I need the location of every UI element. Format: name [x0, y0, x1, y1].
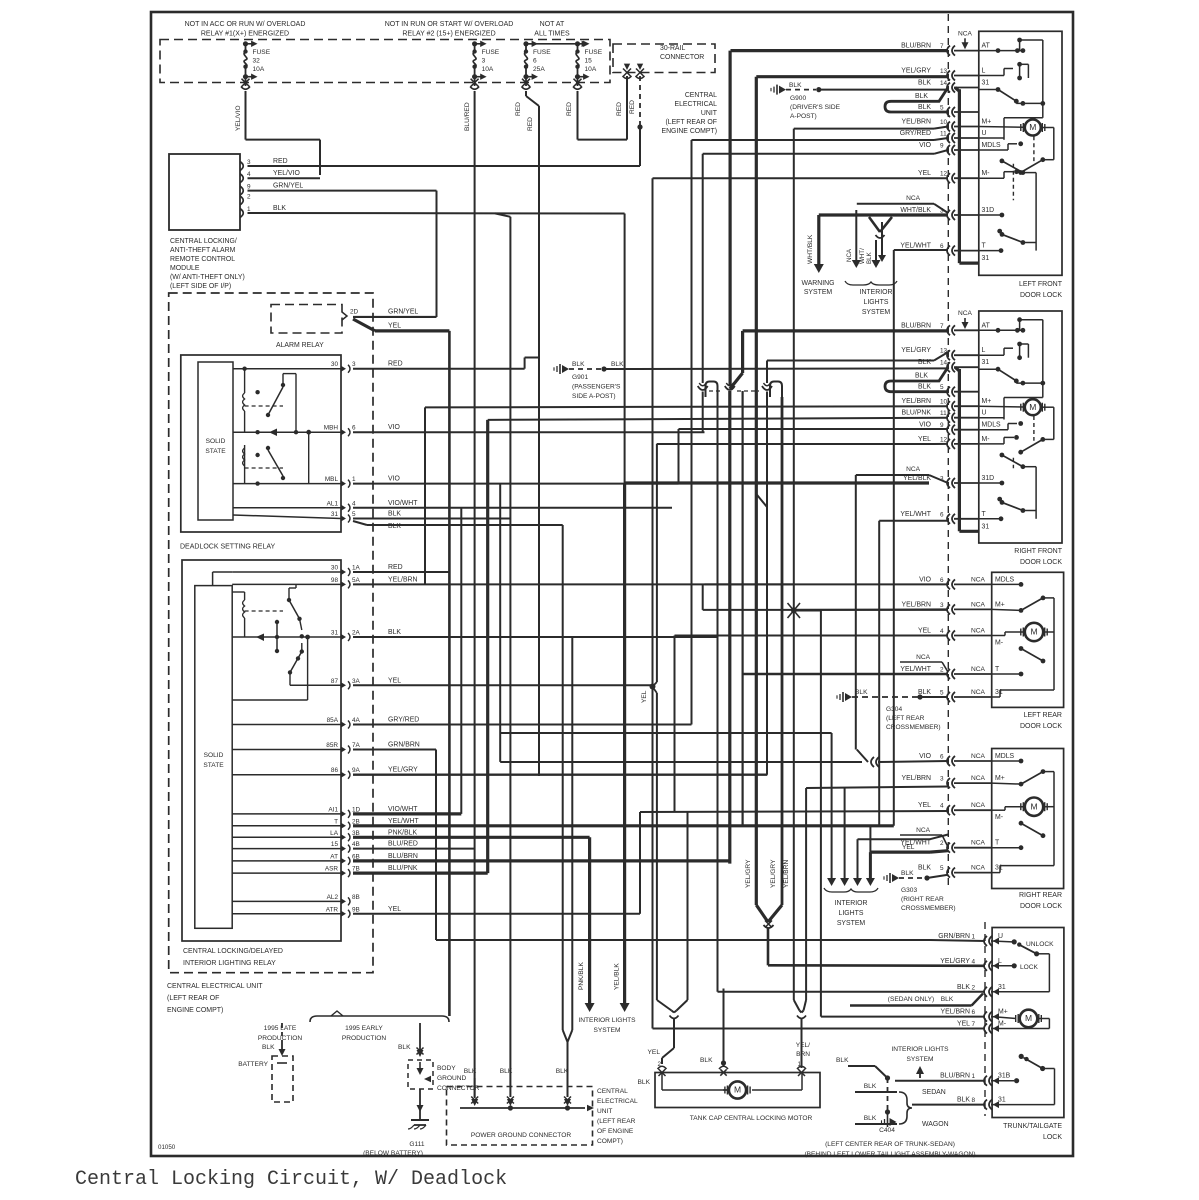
svg-text:YEL/BRN: YEL/BRN: [388, 576, 418, 583]
bus YEL main: [650, 178, 656, 1028]
svg-text:12: 12: [940, 436, 948, 443]
deadlock internals: [233, 367, 341, 519]
svg-text:M-: M-: [995, 640, 1003, 647]
svg-text:GRN/BRN: GRN/BRN: [938, 933, 970, 940]
svg-text:YEL: YEL: [388, 677, 401, 684]
svg-text:4: 4: [971, 958, 975, 965]
wire trunk YEL row: [653, 1028, 986, 1030]
right front door lock label: [1014, 548, 1062, 566]
svg-text:VIO: VIO: [919, 422, 932, 429]
svg-text:PNK/BLK: PNK/BLK: [578, 962, 585, 990]
wire LF T YEL/WHT row: [894, 249, 948, 251]
svg-text:SYSTEM: SYSTEM: [906, 1056, 933, 1063]
svg-text:NCA: NCA: [971, 865, 986, 872]
ground G900: [771, 82, 948, 95]
main relay box: [182, 560, 341, 941]
svg-text:(BELOW BATTERY): (BELOW BATTERY): [363, 1150, 423, 1157]
left rear door lock internals: [992, 582, 1054, 697]
svg-text:YEL: YEL: [918, 802, 931, 809]
harness dash line: [947, 14, 949, 888]
svg-text:ALL TIMES: ALL TIMES: [534, 31, 570, 38]
svg-text:4: 4: [352, 500, 356, 507]
svg-text:NCA: NCA: [906, 195, 921, 202]
header hot at all times: [534, 21, 570, 38]
wire LR p3 row fill: [794, 608, 948, 611]
wire 4B BLU/RED: [353, 848, 475, 850]
svg-text:31: 31: [982, 255, 990, 262]
wire 5A YEL/BRN: [353, 583, 794, 585]
wire RR p4 YEL row: [640, 636, 948, 813]
alarm relay dashed box: [271, 305, 342, 334]
svg-text:(DRIVER'S SIDE: (DRIVER'S SIDE: [790, 104, 841, 111]
svg-text:RED: RED: [388, 361, 403, 368]
wire RF p11 BLU/PNK row: [488, 418, 948, 420]
svg-text:RELAY #1(X+) ENERGIZED: RELAY #1(X+) ENERGIZED: [201, 31, 289, 38]
svg-text:SEDAN: SEDAN: [922, 1089, 946, 1096]
left front door lock label: [1019, 281, 1063, 299]
rot label YEL/GRY 1: [745, 859, 752, 888]
svg-text:M+: M+: [998, 1009, 1008, 1016]
svg-text:VIO/WHT: VIO/WHT: [388, 806, 418, 813]
svg-text:10A: 10A: [482, 66, 494, 73]
svg-text:LIGHTS: LIGHTS: [864, 299, 889, 306]
svg-text:YEL/WHT: YEL/WHT: [900, 511, 931, 518]
main relay label: [183, 948, 283, 967]
G900 text: [790, 95, 841, 120]
svg-text:NOT AT: NOT AT: [540, 21, 565, 28]
svg-text:5: 5: [940, 384, 944, 391]
svg-text:WHT/: WHT/: [859, 248, 866, 264]
LR T NCA stub: [900, 654, 948, 672]
rot label YEL/GRY 2: [770, 859, 777, 888]
interior merge V top: [869, 217, 892, 238]
svg-text:ASR: ASR: [325, 866, 339, 873]
svg-text:G901: G901: [572, 374, 588, 381]
svg-text:31: 31: [331, 630, 339, 637]
svg-text:YEL/WHT: YEL/WHT: [900, 243, 931, 250]
svg-text:85A: 85A: [327, 717, 339, 724]
svg-text:6: 6: [940, 754, 944, 761]
tank cap connectors: [658, 1066, 807, 1076]
svg-text:INTERIOR: INTERIOR: [835, 900, 868, 907]
fuse 3 10A: [470, 41, 500, 90]
svg-text:RED: RED: [629, 100, 636, 114]
svg-text:M: M: [1029, 122, 1036, 132]
module pin4 YEL/VIO wire: [248, 177, 321, 179]
svg-text:YEL/VIO: YEL/VIO: [235, 105, 242, 131]
ground G303: [884, 870, 948, 883]
svg-text:M-: M-: [982, 436, 990, 443]
right rear door lock box: [992, 749, 1064, 889]
diagram number label: [158, 1144, 176, 1151]
wire RF 31D NCA: [856, 466, 948, 750]
deadlock AL1 VIO/WHT wire: [353, 508, 672, 814]
C404 caption: [804, 1141, 975, 1158]
svg-text:BLK: BLK: [388, 629, 401, 636]
svg-text:10: 10: [940, 399, 948, 406]
svg-text:G111: G111: [409, 1141, 424, 1148]
svg-text:BLK: BLK: [700, 1057, 713, 1064]
svg-text:NCA: NCA: [971, 775, 986, 782]
hot-at-all-times bus: [526, 41, 588, 47]
svg-text:BLK: BLK: [273, 205, 286, 212]
svg-text:YEL: YEL: [918, 436, 931, 443]
svg-text:CENTRAL: CENTRAL: [597, 1088, 628, 1095]
svg-text:YEL: YEL: [957, 1021, 970, 1028]
trunk internals: [992, 939, 1054, 1104]
svg-text:YEL/GRY: YEL/GRY: [901, 347, 931, 354]
deadlock inner solid-state box: [198, 362, 233, 520]
svg-text:BATTERY: BATTERY: [238, 1061, 268, 1068]
fuse 32 10A: [241, 41, 271, 90]
svg-text:CENTRAL: CENTRAL: [685, 92, 717, 99]
svg-text:YEL/BRN: YEL/BRN: [941, 1009, 971, 1016]
svg-text:31D: 31D: [982, 475, 995, 482]
svg-text:LA: LA: [330, 830, 339, 837]
svg-text:15: 15: [585, 58, 593, 65]
svg-text:AT: AT: [982, 43, 991, 50]
sedan wagon brace: [899, 1092, 912, 1124]
svg-text:YEL/GRY: YEL/GRY: [745, 859, 752, 888]
battery wire: [262, 1023, 286, 1056]
bus BLU/BRN RF branch: [730, 331, 743, 826]
CEU dashed box: [169, 293, 373, 973]
svg-text:WAGON: WAGON: [922, 1121, 949, 1128]
left front door lock BLK loop wire: [885, 88, 948, 113]
svg-text:YEL: YEL: [648, 1049, 661, 1056]
svg-text:NCA: NCA: [971, 576, 986, 583]
brace 1995: [310, 1011, 449, 1022]
svg-text:2D: 2D: [350, 309, 359, 316]
left front door lock internals: [979, 38, 1054, 253]
alarm relay YEL wire: [353, 319, 449, 1016]
svg-text:PRODUCTION: PRODUCTION: [342, 1035, 387, 1042]
deadlock RED wire: [353, 368, 525, 370]
svg-text:G900: G900: [790, 95, 806, 102]
svg-text:PRODUCTION: PRODUCTION: [258, 1035, 303, 1042]
svg-text:14: 14: [940, 80, 948, 87]
trunk lock label: [1003, 1123, 1062, 1141]
svg-text:M-: M-: [995, 814, 1003, 821]
svg-text:L: L: [982, 347, 986, 354]
svg-text:NCA: NCA: [971, 840, 986, 847]
deadlock BLK second label: [388, 523, 401, 530]
trunk dash line: [984, 922, 986, 1116]
svg-text:31: 31: [998, 1097, 1006, 1104]
svg-text:MDLS: MDLS: [982, 422, 1002, 429]
svg-text:9: 9: [247, 184, 251, 191]
svg-text:13: 13: [940, 68, 948, 75]
warning arrow: [807, 234, 824, 273]
C404 wires: [836, 1057, 890, 1115]
YEL/BRN to LR p3: [703, 609, 948, 611]
svg-text:BLK: BLK: [572, 361, 585, 368]
svg-text:10: 10: [940, 119, 948, 126]
tank cap motor: [725, 1081, 750, 1098]
svg-text:SYSTEM: SYSTEM: [862, 309, 891, 316]
svg-text:VIO/WHT: VIO/WHT: [388, 500, 418, 507]
fuse 6 25A: [522, 41, 552, 90]
wire 9A YEL/GRY: [353, 397, 782, 905]
svg-text:YEL: YEL: [902, 844, 915, 851]
svg-text:LOCK: LOCK: [1043, 1134, 1062, 1141]
svg-text:UNIT: UNIT: [701, 110, 718, 117]
wire 1A RED: [353, 571, 449, 573]
svg-text:RED: RED: [388, 564, 403, 571]
body ground text: [437, 1065, 480, 1092]
svg-text:BLK: BLK: [918, 384, 931, 391]
svg-text:31: 31: [982, 523, 990, 530]
svg-text:4: 4: [940, 628, 944, 635]
wire LF p12 YEL row: [653, 177, 949, 179]
svg-text:NCA: NCA: [916, 654, 931, 661]
svg-text:MDLS: MDLS: [995, 576, 1015, 583]
svg-text:4B: 4B: [352, 841, 360, 848]
right front door lock pins: [900, 322, 1001, 530]
G901 text: [572, 374, 621, 400]
wire 3A YEL: [353, 684, 653, 686]
svg-text:GRN/BRN: GRN/BRN: [388, 742, 420, 749]
svg-text:RED: RED: [566, 102, 573, 116]
power ground box: [447, 1087, 593, 1146]
bus YEL branch RF: [653, 444, 657, 686]
interior lights text top: [860, 289, 893, 316]
svg-text:T: T: [334, 818, 338, 825]
YEL/BRN branch tank: [805, 788, 807, 1000]
svg-text:5A: 5A: [352, 577, 361, 584]
YEL/BRN to RR p3: [794, 611, 948, 1017]
tank YEL V: [657, 1000, 688, 1064]
inline connectors: [698, 382, 782, 398]
svg-text:NCA: NCA: [916, 827, 931, 834]
svg-text:INTERIOR: INTERIOR: [860, 289, 893, 296]
svg-text:2: 2: [940, 840, 944, 847]
svg-text:BLK: BLK: [918, 80, 931, 87]
interior lights text bottom-mid: [578, 1017, 636, 1034]
svg-text:SOLID: SOLID: [206, 438, 226, 445]
svg-text:CONNECTOR: CONNECTOR: [660, 54, 704, 61]
interior brace mid: [824, 888, 878, 892]
svg-text:GRN/YEL: GRN/YEL: [388, 309, 418, 316]
right rear door lock label: [1019, 892, 1062, 910]
svg-text:BLK: BLK: [957, 984, 970, 991]
svg-text:L: L: [982, 68, 986, 75]
svg-text:NOT IN ACC OR RUN W/ OVERLOAD: NOT IN ACC OR RUN W/ OVERLOAD: [185, 21, 306, 28]
wire 7A GRN/BRN: [353, 750, 985, 942]
svg-text:32: 32: [253, 58, 261, 65]
svg-text:ENGINE COMPT): ENGINE COMPT): [167, 1007, 223, 1014]
svg-text:6: 6: [971, 1009, 975, 1016]
svg-text:YEL/GRY: YEL/GRY: [770, 859, 777, 888]
svg-text:CENTRAL ELECTRICAL UNIT: CENTRAL ELECTRICAL UNIT: [167, 983, 263, 990]
module pin1 BLK wire: [248, 213, 625, 1097]
svg-text:9A: 9A: [352, 767, 361, 774]
svg-text:3: 3: [247, 159, 251, 166]
body ground wire: [398, 1023, 424, 1057]
svg-text:ALARM RELAY: ALARM RELAY: [276, 342, 324, 349]
svg-text:BLU/PNK: BLU/PNK: [388, 865, 418, 872]
svg-text:BLK: BLK: [901, 870, 914, 877]
deadlock label: [180, 544, 276, 551]
svg-text:30-RAIL: 30-RAIL: [660, 45, 685, 52]
wire RED from fuse 6: [515, 91, 539, 776]
svg-text:ANTI-THEFT ALARM: ANTI-THEFT ALARM: [170, 247, 236, 254]
svg-text:U: U: [982, 410, 987, 417]
svg-text:(BEHIND LEFT LOWER TAILLIGHT A: (BEHIND LEFT LOWER TAILLIGHT ASSEMBLY-WA…: [804, 1151, 975, 1158]
svg-text:7: 7: [971, 1021, 975, 1028]
svg-text:GRY/RED: GRY/RED: [900, 130, 931, 137]
svg-text:G304: G304: [886, 706, 902, 713]
right front door lock BLK 31 drop wire: [955, 367, 979, 531]
bus VIO LR row: [705, 583, 949, 585]
svg-text:BLK: BLK: [556, 1068, 569, 1075]
deadlock pins: [324, 361, 418, 523]
main relay pins: [325, 564, 420, 918]
svg-text:VIO: VIO: [919, 753, 932, 760]
svg-text:VIO: VIO: [919, 576, 932, 583]
deadlock MBL VIO wire: [353, 483, 679, 485]
svg-text:TANK CAP CENTRAL LOCKING MOTOR: TANK CAP CENTRAL LOCKING MOTOR: [690, 1115, 813, 1122]
tank cap box: [655, 1073, 820, 1108]
svg-text:8B: 8B: [352, 894, 360, 901]
30-rail pin arcs: [623, 64, 645, 79]
svg-text:BLK: BLK: [611, 361, 624, 368]
right front door lock internals: [979, 317, 1054, 521]
svg-text:3: 3: [940, 602, 944, 609]
1995 early text: [342, 1025, 387, 1042]
svg-text:GROUND: GROUND: [437, 1075, 467, 1082]
svg-text:COMPT): COMPT): [597, 1138, 623, 1145]
module text: [170, 238, 245, 290]
svg-text:U: U: [982, 130, 987, 137]
svg-text:YEL/WHT: YEL/WHT: [388, 818, 419, 825]
svg-text:5: 5: [940, 865, 944, 872]
svg-text:AT: AT: [330, 853, 338, 860]
svg-text:(LEFT REAR: (LEFT REAR: [597, 1118, 636, 1125]
svg-text:YEL/GRY: YEL/GRY: [901, 68, 931, 75]
svg-text:NOT IN RUN OR START W/ OVERLOA: NOT IN RUN OR START W/ OVERLOAD: [385, 21, 514, 28]
svg-text:4A: 4A: [352, 717, 361, 724]
svg-text:BLK: BLK: [638, 1079, 651, 1086]
svg-text:7: 7: [940, 323, 944, 330]
svg-text:YEL/BRN: YEL/BRN: [783, 860, 790, 888]
deadlock 31 BLK wire: [353, 518, 510, 520]
bus YEL/WHT LFT: [893, 250, 895, 826]
right rear door lock internals: [992, 759, 1054, 873]
svg-text:NCA: NCA: [971, 802, 986, 809]
rot label YEL/BRN: [783, 860, 790, 888]
svg-text:BLK: BLK: [866, 251, 873, 264]
svg-text:NCA: NCA: [971, 666, 986, 673]
svg-text:BLK: BLK: [855, 689, 868, 696]
svg-text:(LEFT REAR OF: (LEFT REAR OF: [665, 119, 717, 126]
svg-text:1A: 1A: [352, 565, 361, 572]
svg-text:1995 EARLY: 1995 EARLY: [345, 1025, 383, 1032]
svg-text:2: 2: [971, 984, 975, 991]
svg-text:STATE: STATE: [203, 762, 224, 769]
LR T YEL/WHT wire: [743, 673, 948, 676]
wire BLU/RED from fuse 3: [464, 91, 475, 1097]
wire LF p7 BLU/BRN row: [731, 49, 949, 52]
CEU bottom right text: [597, 1088, 638, 1145]
bus VIO LR link: [702, 584, 704, 610]
svg-text:LEFT FRONT: LEFT FRONT: [1019, 281, 1063, 288]
svg-text:MODULE: MODULE: [170, 265, 200, 272]
svg-text:(PASSENGER'S: (PASSENGER'S: [572, 384, 621, 391]
svg-text:BLK: BLK: [789, 82, 802, 89]
wire LF p9 VIO row: [703, 150, 948, 154]
warning system text: [801, 280, 834, 296]
main relay inner solid-state box: [195, 586, 232, 929]
svg-text:M: M: [734, 1085, 741, 1095]
wire LR p4 YEL row: [675, 635, 949, 637]
svg-text:SYSTEM: SYSTEM: [804, 289, 833, 296]
svg-text:31: 31: [982, 359, 990, 366]
fuse 15 10A: [573, 41, 603, 90]
G304 text: [886, 706, 941, 731]
svg-text:31D: 31D: [982, 207, 995, 214]
svg-text:31: 31: [982, 80, 990, 87]
ground G304: [837, 689, 948, 702]
svg-text:BLK: BLK: [918, 865, 931, 872]
svg-text:31: 31: [998, 984, 1006, 991]
svg-text:BLU/BRN: BLU/BRN: [901, 322, 931, 329]
svg-text:11: 11: [940, 410, 947, 417]
svg-text:CENTRAL LOCKING/: CENTRAL LOCKING/: [170, 238, 237, 245]
ground G901: [554, 361, 948, 374]
svg-text:12: 12: [940, 171, 948, 178]
svg-text:13: 13: [940, 348, 948, 355]
svg-text:7A: 7A: [352, 742, 361, 749]
deadlock relay box: [181, 355, 341, 532]
svg-text:LOCK: LOCK: [1020, 964, 1039, 971]
svg-text:BLK: BLK: [500, 1068, 513, 1075]
svg-text:NCA: NCA: [971, 689, 986, 696]
wire RED from fuse 15: [566, 76, 627, 140]
right rear door lock pins: [900, 753, 1014, 878]
wire 2B YEL/WHT: [353, 824, 894, 827]
svg-text:YEL/WHT: YEL/WHT: [900, 666, 931, 673]
svg-text:5: 5: [940, 690, 944, 697]
bus YEL branch tankV2: [687, 812, 689, 1000]
trunk lock box: [992, 928, 1064, 1118]
svg-text:PNK/BLK: PNK/BLK: [388, 829, 418, 836]
interior lights arrows mid: [827, 733, 948, 886]
svg-text:M: M: [1030, 801, 1037, 811]
G111 ground symbol: [408, 1120, 429, 1129]
svg-text:BRN: BRN: [796, 1051, 810, 1058]
YEL/BRN X splice: [788, 603, 801, 618]
trunk sedan only label: [888, 996, 954, 1003]
svg-text:TRUNK/TAILGATE: TRUNK/TAILGATE: [1003, 1123, 1062, 1130]
svg-text:AL1: AL1: [327, 500, 339, 507]
svg-text:30: 30: [331, 565, 339, 572]
alarm relay label: [276, 342, 324, 349]
tank cap wiring: [662, 1073, 802, 1091]
RR T NCA stub: [900, 827, 948, 847]
wire RF T YEL/WHT row: [879, 520, 948, 522]
svg-text:BLK: BLK: [915, 373, 928, 380]
svg-text:YEL: YEL: [641, 690, 648, 703]
left front door lock pins: [900, 43, 1001, 263]
svg-text:8: 8: [971, 1097, 975, 1104]
svg-text:BLK: BLK: [398, 1044, 411, 1051]
svg-text:YEL: YEL: [918, 170, 931, 177]
wire 6B BLU/BRN: [353, 51, 730, 864]
svg-text:YEL/BLK: YEL/BLK: [903, 475, 931, 482]
svg-text:BLK: BLK: [941, 996, 954, 1003]
wire 3B PNK/BLK: [353, 837, 590, 1004]
